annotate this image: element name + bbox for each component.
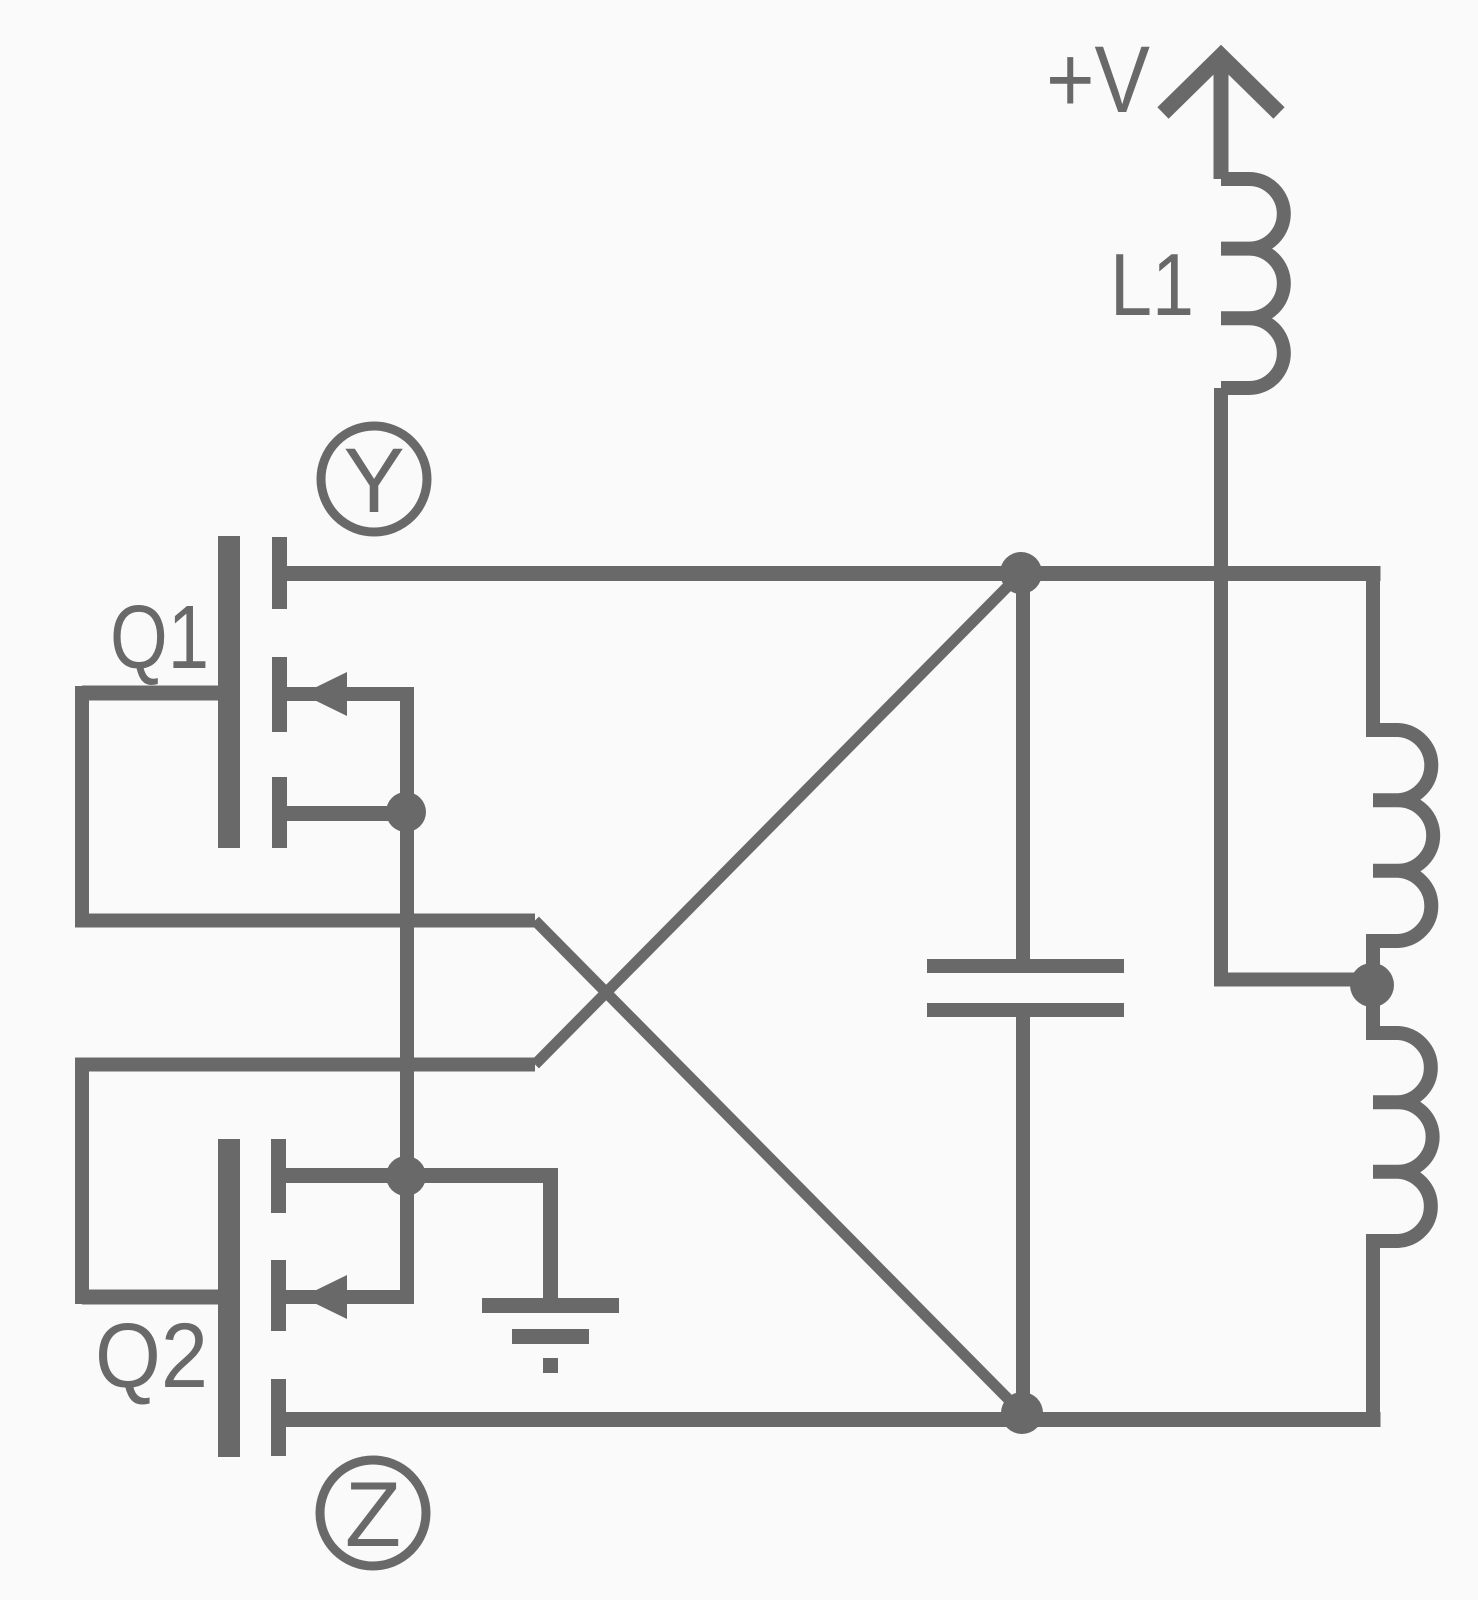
capacitor top plate [927, 959, 1124, 973]
svg-text:L1: L1 [1110, 235, 1194, 334]
node Y circle [321, 426, 427, 532]
transistor Q2 channel segment top [271, 1139, 286, 1213]
wire node Y horizontal [287, 566, 1381, 581]
svg-text:Z: Z [345, 1464, 401, 1566]
capacitor top lead [1016, 573, 1030, 959]
wire Q1 source to Q2 source [400, 812, 414, 1176]
svg-text:Y: Y [343, 430, 404, 532]
transistor Q2 channel segment bottom [271, 1379, 286, 1456]
transistor Q1 channel segment top [272, 537, 287, 609]
svg-text:Q2: Q2 [95, 1305, 208, 1407]
junction dot Q1 source [386, 792, 426, 832]
junction dot node Z [1001, 1392, 1043, 1434]
power +V arrow [1163, 56, 1279, 113]
ground bar 2 [512, 1329, 589, 1344]
transistor Q2 gate lead wire [82, 1290, 218, 1305]
inductor L1 [1221, 179, 1284, 388]
transistor Q2 channel segment middle [271, 1260, 286, 1331]
wire Q2 gate left loop [82, 1065, 535, 1305]
transformer winding upper half [1373, 566, 1433, 985]
transistor Q1 channel segment middle [272, 657, 287, 732]
transistor Q1 body tap wire [287, 694, 407, 812]
junction dot node Y [1000, 552, 1042, 594]
wire from +V arrow to L1 [1214, 54, 1229, 179]
wire node Z horizontal [285, 1412, 1381, 1427]
ground bar 3 [543, 1358, 558, 1373]
transistor Q1 gate lead wire [82, 686, 218, 701]
junction dot Q2 source [386, 1156, 426, 1196]
transistor Q2 body arrow [302, 1275, 347, 1319]
wire cross-coupling diagonal Q2 gate to node Y [535, 573, 1021, 1065]
wire L1 bottom down to center tap [1221, 388, 1368, 980]
transistor Q1 body arrow [302, 672, 347, 716]
transistor Q1 source tap wire [287, 806, 406, 821]
capacitor bottom lead [1016, 1017, 1030, 1413]
node Z circle [320, 1460, 426, 1566]
svg-text:+V: +V [1046, 27, 1150, 133]
transistor Q2 source tap wire and ground lead [285, 1168, 558, 1183]
transistor Q2 body tap wire [285, 1176, 407, 1297]
wire cross-coupling diagonal Q1 gate to node Z [535, 921, 1022, 1414]
capacitor bottom plate [927, 1003, 1124, 1017]
wire Q1 gate left loop [82, 686, 535, 921]
transistor Q2 gate bar [218, 1139, 240, 1457]
ground bar 1 [482, 1298, 619, 1313]
transformer winding lower half [1373, 985, 1433, 1420]
ground wire drop [543, 1183, 558, 1298]
transistor Q1 gate bar [218, 536, 240, 848]
junction dot transformer center tap [1350, 963, 1394, 1007]
transistor Q1 channel segment bottom [272, 777, 287, 848]
svg-text:Q1: Q1 [110, 588, 209, 688]
